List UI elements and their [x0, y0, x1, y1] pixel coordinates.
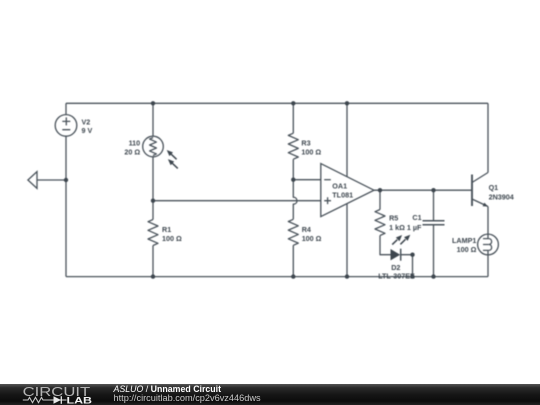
transistor Q1	[472, 173, 488, 207]
svg-text:20 Ω: 20 Ω	[124, 148, 140, 157]
junction output / R5	[378, 188, 382, 192]
op-amp OA1	[321, 164, 374, 217]
svg-text:C1: C1	[412, 213, 421, 222]
junction bottom rail / V- pin	[345, 274, 349, 278]
voltage source V2	[55, 115, 77, 137]
resistor R4	[288, 219, 298, 245]
svg-text:100 Ω: 100 Ω	[301, 147, 321, 156]
label LAMP1 value	[452, 236, 477, 254]
junction output / C1	[431, 188, 435, 192]
label R4 value	[302, 225, 322, 243]
ground node flag	[28, 172, 37, 189]
svg-text:1 kΩ: 1 kΩ	[389, 223, 405, 232]
junction top rail / V+ pin	[345, 101, 349, 105]
junction top rail / photoresistor	[151, 101, 155, 105]
junction bottom rail / C1	[431, 274, 435, 278]
svg-text:100 Ω: 100 Ω	[457, 245, 477, 254]
footer bar	[0, 384, 540, 405]
svg-text:R4: R4	[302, 225, 311, 234]
wire photoresistor-R1 column	[152, 103, 154, 276]
junction top rail / R3	[291, 101, 295, 105]
wire op-amp V- pin	[346, 190, 348, 277]
wire R3-R4 column with hop over noninverting input	[293, 103, 297, 276]
svg-text:LAMP1: LAMP1	[452, 236, 476, 245]
capacitor C1	[423, 221, 445, 225]
wire op-amp V+ pin	[346, 103, 348, 190]
LED D2	[391, 235, 411, 261]
label Q1 2N3904	[489, 183, 514, 202]
svg-text:110: 110	[129, 138, 141, 147]
footer title and url	[114, 385, 261, 404]
label R5 value	[389, 214, 405, 232]
svg-text:LTL-307EE: LTL-307EE	[378, 272, 415, 281]
label OA1 TL081	[332, 181, 353, 199]
wire D2 cathode to bottom rail	[401, 255, 413, 277]
junction bottom rail / R4	[291, 274, 295, 278]
lamp LAMP1	[478, 234, 499, 255]
resistor R5	[375, 210, 385, 236]
svg-text:R3: R3	[301, 139, 310, 148]
junction photoresistor-R1 / noninverting input	[151, 199, 155, 203]
wire noninverting input row	[153, 200, 321, 202]
label R1 value	[162, 225, 182, 243]
label R3 value	[301, 139, 321, 157]
junction ground / V2 column	[64, 178, 68, 182]
junction bottom rail / D2	[410, 274, 414, 278]
label C1 value	[407, 213, 422, 232]
svg-text:OA1: OA1	[332, 181, 347, 190]
svg-text:LAB: LAB	[67, 396, 93, 405]
wire Q1 emitter to LAMP1 column	[487, 207, 489, 277]
svg-text:Q1: Q1	[489, 183, 499, 192]
svg-text:2N3904: 2N3904	[489, 193, 514, 202]
wire top rail	[66, 102, 488, 104]
wire bottom rail	[66, 276, 488, 278]
resistor R1	[148, 220, 158, 246]
label photoresistor 110 value	[124, 138, 140, 156]
svg-text:100 Ω: 100 Ω	[162, 234, 182, 243]
wire ground stub	[37, 179, 66, 181]
junction D2 cathode corner	[410, 253, 414, 257]
wire output row to Q1 base	[374, 189, 472, 191]
wire inverting input stub	[293, 179, 321, 181]
svg-text:R1: R1	[162, 225, 171, 234]
wire C1 branch	[433, 190, 435, 276]
junction R3-R4 / inverting input	[291, 178, 295, 182]
label V2 value	[82, 118, 93, 136]
photoresistor 110	[143, 136, 178, 168]
CircuitLab logo	[0, 384, 110, 405]
wire R5 branch	[380, 190, 391, 255]
wire left column V2 branch	[65, 103, 67, 276]
resistor R3	[288, 133, 298, 159]
wire Q1 collector column	[487, 103, 489, 172]
label D2 LTL-307EE	[378, 263, 415, 281]
svg-text:TL081: TL081	[332, 190, 353, 199]
svg-text:9 V: 9 V	[82, 126, 93, 135]
svg-text:R5: R5	[389, 214, 398, 223]
svg-text:100 Ω: 100 Ω	[302, 234, 322, 243]
svg-text:1 µF: 1 µF	[407, 223, 422, 232]
junction bottom rail / R1	[151, 274, 155, 278]
